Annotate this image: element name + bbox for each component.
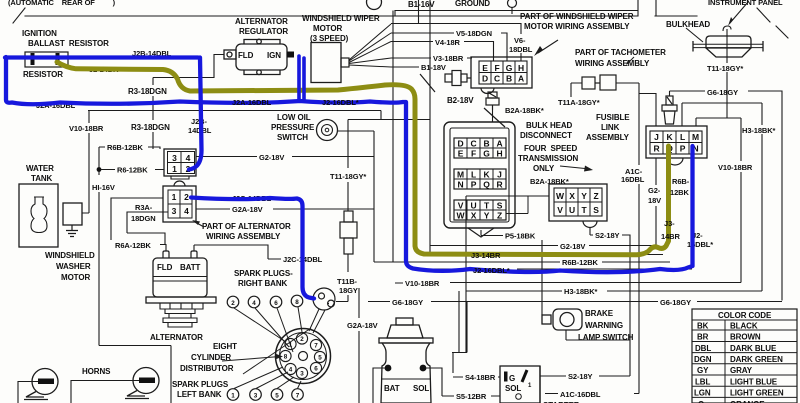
svg-text:H3-18BK*: H3-18BK*: [564, 287, 598, 296]
spark plug circle 4: [248, 296, 260, 308]
letters JKLM RQPN: [653, 132, 699, 154]
wire oil switch east: [338, 131, 375, 262]
wire V3-18BR: [391, 57, 472, 59]
wire B1-18V: [391, 66, 419, 68]
svg-text:V10-18BR: V10-18BR: [718, 163, 753, 172]
svg-text:12BK: 12BK: [670, 188, 689, 197]
bulkhead grid MLKJ/NPQR: [454, 169, 506, 189]
ballast resistor body: [25, 52, 68, 67]
resistor pin left: [31, 53, 35, 65]
wire V10 vertical to washer motor: [82, 111, 89, 214]
wire G2A-18V left: [196, 208, 374, 210]
svg-text:2: 2: [300, 336, 304, 343]
wire V6-18DBL: [391, 24, 521, 62]
windshield washer motor: [63, 203, 82, 225]
svg-text:R6B-: R6B-: [672, 177, 690, 186]
svg-text:J2-16DBL*: J2-16DBL*: [322, 98, 359, 107]
svg-text:PART OF TACHOMETER: PART OF TACHOMETER: [575, 48, 666, 57]
svg-text:(3 SPEED): (3 SPEED): [310, 34, 349, 43]
svg-text:G: G: [509, 374, 515, 383]
svg-text:GY: GY: [697, 366, 709, 375]
svg-text:P5-18BK: P5-18BK: [505, 232, 536, 241]
connector tachometer plug pair: [582, 75, 616, 90]
spark plug circle 2: [227, 296, 239, 308]
svg-text:J2-16DBL*: J2-16DBL*: [473, 266, 510, 275]
wire HI-16V vertical: [99, 147, 171, 403]
svg-text:3: 3: [172, 206, 177, 216]
wire R6B-12BK run: [374, 261, 670, 263]
svg-text:BR: BR: [697, 333, 709, 342]
svg-text:Q: Q: [483, 180, 490, 190]
svg-text:3: 3: [172, 153, 177, 163]
svg-text:1: 1: [172, 164, 177, 174]
svg-text:6: 6: [274, 300, 278, 307]
svg-text:18DGN: 18DGN: [131, 214, 156, 223]
svg-text:L: L: [471, 170, 476, 180]
svg-text:S: S: [497, 201, 503, 211]
svg-text:LOW OIL: LOW OIL: [277, 113, 311, 122]
relay terminal BAT: [385, 365, 392, 372]
distributor body: [276, 329, 331, 384]
svg-text:PRESSURE: PRESSURE: [271, 123, 315, 132]
wire brake to S2: [566, 330, 630, 340]
blue trace regulator IGN drop: [299, 56, 304, 101]
svg-text:BK: BK: [697, 322, 709, 331]
svg-text:DARK BLUE: DARK BLUE: [730, 344, 777, 353]
svg-text:M: M: [457, 170, 464, 180]
svg-text:V: V: [557, 205, 563, 215]
svg-text:A: A: [496, 139, 502, 149]
svg-text:7: 7: [296, 393, 300, 400]
wire R3A pin1 to R6A: [111, 198, 166, 251]
windshield wiper motor body: [311, 43, 341, 83]
wire G2-18V left: [196, 156, 374, 158]
bulkhead grommet: [693, 26, 763, 63]
svg-text:G: G: [483, 149, 490, 159]
svg-text:V3-18BR: V3-18BR: [433, 54, 464, 63]
wire regulator FLD lead: [153, 55, 224, 78]
wire T11A vertical: [571, 83, 582, 97]
svg-text:HORNS: HORNS: [82, 367, 111, 376]
svg-text:2: 2: [231, 300, 235, 307]
svg-text:R3A-: R3A-: [135, 203, 153, 212]
svg-text:G2-18V: G2-18V: [259, 153, 284, 162]
svg-text:Z: Z: [593, 191, 598, 201]
svg-text:3: 3: [300, 371, 304, 378]
svg-text:WIRING ASSEMBLY: WIRING ASSEMBLY: [575, 59, 650, 68]
svg-text:LBL: LBL: [695, 377, 710, 386]
svg-text:LAMP SWITCH: LAMP SWITCH: [578, 333, 634, 342]
wire BAT lead: [373, 368, 385, 403]
svg-text:DGN: DGN: [694, 355, 712, 364]
wire R pin G2: [655, 158, 657, 246]
svg-text:7: 7: [314, 343, 318, 350]
horn left: [24, 369, 58, 400]
svg-text:8: 8: [284, 354, 288, 361]
wire H3 upper run: [682, 103, 762, 126]
svg-text:DARK GREEN: DARK GREEN: [730, 355, 783, 364]
top-right dashed panel boundary: [757, 8, 788, 38]
svg-text:F: F: [471, 149, 476, 159]
svg-text:SPARK PLUGS-: SPARK PLUGS-: [234, 269, 293, 278]
svg-text:S: S: [593, 205, 599, 215]
wire A1C lower link: [545, 393, 639, 395]
wire from Z row: [506, 196, 528, 214]
svg-text:RESISTOR: RESISTOR: [23, 70, 63, 79]
svg-text:BAT: BAT: [384, 384, 400, 393]
svg-text:MOTOR: MOTOR: [61, 273, 90, 282]
wire J pin run: [639, 94, 656, 127]
svg-text:5: 5: [318, 355, 322, 362]
svg-text:R: R: [496, 180, 502, 190]
svg-text:BATT: BATT: [180, 263, 201, 272]
svg-text:GROUND: GROUND: [455, 0, 490, 8]
svg-text:W: W: [556, 191, 565, 201]
svg-text:R3-18DGN: R3-18DGN: [131, 123, 170, 132]
spark plug circle 1: [227, 389, 239, 401]
resistor pin right: [56, 53, 60, 65]
svg-text:BULKHEAD: BULKHEAD: [666, 20, 710, 29]
spark plug circle 7: [292, 389, 304, 401]
svg-text:S5-12BR: S5-12BR: [456, 392, 487, 401]
wire SOL lead to S5: [426, 368, 500, 396]
wire V10-18BR run: [395, 282, 741, 285]
wire V4-18R: [391, 42, 494, 62]
brake warning lamp switch: [542, 309, 582, 330]
svg-text:1: 1: [172, 192, 177, 202]
pointer bulkhead: [686, 28, 703, 42]
wire A1C vertical: [638, 83, 640, 394]
relay terminal SOL: [420, 365, 427, 372]
svg-text:INSTRUMENT PANEL: INSTRUMENT PANEL: [708, 0, 783, 7]
svg-text:A: A: [518, 74, 524, 84]
svg-text:BLACK: BLACK: [730, 322, 758, 331]
svg-text:V5-18DGN: V5-18DGN: [456, 29, 492, 38]
spark plug circle 8: [291, 295, 303, 307]
wire V10 vertical right: [740, 118, 742, 283]
svg-text:C: C: [470, 139, 476, 149]
svg-text:R6B-12BK: R6B-12BK: [107, 143, 144, 152]
svg-text:TRANSMISSION: TRANSMISSION: [518, 154, 578, 163]
svg-text:G6-18GY: G6-18GY: [660, 298, 691, 307]
wire tach to A1C vertical: [616, 82, 639, 84]
letters EFGH DCBA: [482, 63, 524, 84]
svg-text:S2-18Y: S2-18Y: [568, 372, 593, 381]
svg-text:LIGHT BLUE: LIGHT BLUE: [730, 377, 778, 386]
alternator pins: [163, 251, 197, 258]
fusible link component: [662, 96, 677, 124]
svg-text:T11-18GY*: T11-18GY*: [330, 172, 366, 181]
wire T11B to coil: [336, 254, 348, 302]
clipped top symbol circle: [367, 0, 382, 10]
svg-text:ALTERNATOR: ALTERNATOR: [235, 17, 288, 26]
svg-text:W: W: [457, 211, 466, 221]
color code table: [692, 309, 797, 403]
svg-text:U: U: [569, 205, 575, 215]
connector B2 plug: [486, 92, 499, 110]
svg-text:4: 4: [184, 206, 189, 216]
svg-text:LINK: LINK: [601, 123, 620, 132]
wire wiper harness fan: [349, 24, 391, 67]
svg-text:P: P: [680, 144, 686, 154]
svg-text:M: M: [692, 132, 699, 142]
svg-text:4: 4: [186, 153, 191, 163]
connector B1 inline plug: [445, 71, 471, 86]
instrument panel stub wires: [395, 0, 656, 16]
svg-text:SPARK PLUGS: SPARK PLUGS: [172, 380, 229, 389]
svg-text:WATER: WATER: [26, 164, 54, 173]
svg-text:IGNITION: IGNITION: [22, 29, 57, 38]
wire M pin run: [696, 118, 741, 126]
svg-text:B1-16V: B1-16V: [408, 0, 435, 9]
arrow four speed: [560, 166, 590, 169]
svg-text:G2A-18V: G2A-18V: [347, 321, 378, 330]
svg-text:A1C-16DBL: A1C-16DBL: [560, 390, 601, 399]
svg-text:N: N: [457, 180, 463, 190]
spark plug circle 6: [270, 296, 282, 308]
top border line: [25, 11, 697, 17]
wire G6-18GY bottom run: [368, 301, 782, 303]
svg-text:WASHER: WASHER: [56, 262, 91, 271]
svg-text:BROWN: BROWN: [730, 333, 761, 342]
wire fusible link feed: [669, 91, 671, 96]
svg-text:RIGHT BANK: RIGHT BANK: [238, 279, 288, 288]
wire T11B vertical: [347, 120, 349, 212]
svg-text:8: 8: [295, 299, 299, 306]
top-left diagonal tick: [13, 8, 25, 23]
connector wiper EFGH/DCBA: [471, 57, 532, 94]
starter relay body: [379, 318, 433, 403]
svg-text:5: 5: [275, 393, 279, 400]
svg-text:PART OF ALTERNATOR: PART OF ALTERNATOR: [202, 222, 291, 231]
svg-text:DISCONNECT: DISCONNECT: [520, 131, 572, 140]
wire S2 from four-speed connector: [590, 227, 630, 376]
svg-text:B1-18V: B1-18V: [421, 63, 446, 72]
svg-text:4: 4: [289, 367, 293, 374]
svg-text:X: X: [569, 191, 575, 201]
wires coil to distributor: [309, 309, 325, 333]
svg-text:FUSIBLE: FUSIBLE: [596, 113, 630, 122]
svg-text:R6A-12BK: R6A-12BK: [115, 241, 152, 250]
svg-text:T11B-: T11B-: [337, 277, 358, 286]
arrow to R3A connector: [195, 222, 204, 227]
svg-text:G6-18GY: G6-18GY: [707, 88, 738, 97]
svg-text:T11A-18GY*: T11A-18GY*: [558, 98, 600, 107]
wires left bank to distributor: [234, 367, 301, 389]
wire P5 to brake switch: [481, 230, 542, 315]
svg-text:SWITCH: SWITCH: [277, 133, 308, 142]
svg-text:LEFT BANK: LEFT BANK: [177, 390, 222, 399]
svg-text:3: 3: [254, 393, 258, 400]
svg-text:V6-: V6-: [514, 36, 526, 45]
connector R3A block 1-2/3-4: [163, 181, 196, 222]
switch terminal circle: [516, 394, 522, 400]
wire B2 to bulkhead: [492, 110, 494, 122]
svg-text:MOTOR: MOTOR: [313, 24, 342, 33]
alternator regulator body: [224, 39, 287, 74]
svg-text:R3-18DGN: R3-18DGN: [128, 87, 167, 96]
svg-text:J: J: [497, 170, 502, 180]
wire horn right: [71, 381, 139, 403]
svg-text:2: 2: [184, 192, 189, 202]
svg-text:14BR: 14BR: [661, 232, 680, 241]
svg-text:B: B: [506, 74, 512, 84]
connector T11B inline: [340, 211, 357, 254]
svg-text:DISTRIBUTOR: DISTRIBUTOR: [180, 364, 234, 373]
distributor tower numbers: [284, 336, 323, 378]
wire stub vertical x418: [418, 0, 420, 24]
wire T11 down from bulkhead: [726, 72, 728, 118]
junction dot R6: [97, 167, 102, 172]
svg-text:H: H: [496, 149, 502, 159]
svg-text:LGN: LGN: [694, 389, 711, 398]
wire R3A pin3 loop: [127, 212, 168, 245]
svg-text:B: B: [483, 139, 489, 149]
svg-text:G6-18GY: G6-18GY: [392, 298, 423, 307]
svg-text:D: D: [482, 74, 488, 84]
svg-text:G2-: G2-: [648, 186, 661, 195]
wire long vertical x393: [392, 11, 394, 263]
svg-text:R: R: [653, 144, 659, 154]
bulkhead disconnect connector: [444, 122, 515, 237]
wire left bank long diagonal to coil: [243, 328, 311, 374]
svg-text:G2A-18V: G2A-18V: [232, 205, 263, 214]
svg-text:V10-18BR: V10-18BR: [405, 279, 440, 288]
svg-text:EIGHT: EIGHT: [213, 342, 237, 351]
svg-text:K: K: [666, 132, 673, 142]
wire H3 vertical right: [761, 134, 763, 291]
svg-text:GRAY: GRAY: [730, 366, 753, 375]
arrowhead bulkhead pointer: [728, 17, 733, 26]
svg-text:R6B-12BK: R6B-12BK: [562, 258, 599, 267]
svg-text:P: P: [471, 180, 477, 190]
svg-text:WARNING: WARNING: [585, 321, 623, 330]
svg-text:18DBL: 18DBL: [509, 45, 533, 54]
svg-text:1: 1: [231, 393, 235, 400]
svg-text:T11-18GY*: T11-18GY*: [707, 64, 743, 73]
wire WXYZ left feed: [466, 196, 549, 353]
svg-text:BULK HEAD: BULK HEAD: [526, 121, 573, 130]
wire S2-18Y lower: [540, 375, 630, 377]
wire J2A lower chassis run: [88, 111, 430, 120]
svg-text:BRAKE: BRAKE: [585, 309, 614, 318]
wires right bank to distributor: [234, 307, 302, 352]
arrow to wiper connector: [538, 40, 558, 53]
svg-text:4: 4: [252, 300, 256, 307]
svg-text:18GY: 18GY: [339, 286, 358, 295]
svg-text:SOL: SOL: [505, 384, 521, 393]
svg-text:B2-18V: B2-18V: [447, 96, 474, 105]
connector R6 block 3-4/1-2: [164, 149, 196, 179]
svg-text:R6-12BK: R6-12BK: [117, 166, 148, 175]
svg-text:COLOR CODE: COLOR CODE: [718, 311, 772, 320]
water tank bottle: [31, 197, 47, 233]
svg-text:V4-18R: V4-18R: [435, 38, 461, 47]
svg-text:Z: Z: [497, 211, 502, 221]
svg-text:C: C: [494, 74, 500, 84]
svg-text:WINDSHIELD WIPER: WINDSHIELD WIPER: [302, 14, 380, 23]
svg-text:HI-16V: HI-16V: [92, 183, 115, 192]
wire horn left: [18, 382, 38, 403]
alternator body: [146, 258, 216, 327]
svg-text:ASSEMBLY: ASSEMBLY: [586, 133, 630, 142]
svg-text:PART OF WINDSHIELD WIPER: PART OF WINDSHIELD WIPER: [520, 12, 634, 21]
ignition switch box: [500, 366, 540, 403]
wire S4-18BR: [452, 291, 500, 377]
svg-text:S2-18Y: S2-18Y: [595, 231, 620, 240]
wire long vertical x430: [429, 0, 431, 255]
svg-text:SOL: SOL: [413, 384, 429, 393]
svg-text:ONLY: ONLY: [533, 164, 555, 173]
svg-text:REGULATOR: REGULATOR: [239, 27, 288, 36]
arrow from instrument panel to bulkhead: [730, 2, 748, 23]
olive highlighted trace (R6B circuit): [57, 62, 669, 255]
svg-text:H3-18BK*: H3-18BK*: [742, 126, 776, 135]
svg-text:TANK: TANK: [31, 174, 53, 183]
wire G2A-18V right vertical: [358, 288, 360, 403]
dashed assembly boundary (left of bulkhead): [420, 74, 505, 127]
wire G6-18GY top: [670, 91, 783, 301]
ignition coil: [313, 288, 335, 310]
svg-text:B2A-18BK*: B2A-18BK*: [505, 106, 544, 115]
svg-text:S4-18BR: S4-18BR: [465, 373, 496, 382]
svg-text:F: F: [494, 63, 499, 73]
svg-text:ALTERNATOR: ALTERNATOR: [150, 333, 203, 342]
svg-text:V: V: [458, 201, 464, 211]
water tank: [19, 184, 58, 247]
svg-text:D: D: [457, 139, 463, 149]
low oil pressure switch: [317, 120, 338, 141]
ground symbol washer: [66, 225, 78, 237]
bulkhead grid DCBA/EFGH: [454, 138, 506, 158]
svg-text:16DBL: 16DBL: [621, 175, 645, 184]
svg-text:J3-14BR: J3-14BR: [471, 251, 501, 260]
wire R6B-12BK left: [99, 147, 160, 149]
pointer distributor arrow: [222, 357, 280, 362]
svg-text:U: U: [470, 201, 476, 211]
svg-text:Y: Y: [484, 211, 490, 221]
svg-text:K: K: [483, 170, 490, 180]
svg-text:FLD: FLD: [157, 263, 173, 272]
blue trace J2B branch to connector pin 2: [189, 58, 202, 170]
svg-text:J3-: J3-: [664, 219, 675, 228]
svg-text:E: E: [482, 63, 488, 73]
svg-text:BALLAST RESISTOR: BALLAST RESISTOR: [28, 39, 109, 48]
svg-text:LIGHT GREEN: LIGHT GREEN: [730, 389, 784, 398]
svg-text:E: E: [458, 149, 464, 159]
wire J3-14BR run: [430, 254, 663, 256]
wiper motor terminal tab: [341, 58, 349, 67]
connector JKLM/RQPN: [646, 126, 707, 165]
svg-text:DBL: DBL: [695, 344, 711, 353]
svg-text:J: J: [654, 132, 659, 142]
wire G2-18V middle: [430, 245, 656, 247]
ground symbol circle (top): [508, 0, 517, 8]
regulator IGN terminal: [287, 52, 294, 58]
svg-text:18V: 18V: [648, 196, 661, 205]
svg-text:FLD: FLD: [238, 51, 254, 60]
svg-text:L: L: [680, 132, 685, 142]
svg-text:IGN: IGN: [267, 51, 281, 60]
connector WXYZ/VUTS (four speed): [549, 184, 607, 228]
wire R3-18DGN vertical: [152, 78, 154, 150]
svg-text:G: G: [506, 63, 513, 73]
bulkhead grid VUTS/WXYZ: [454, 200, 506, 220]
spark plug circle 3: [250, 389, 262, 401]
horn right: [125, 368, 159, 399]
svg-text:J2A-16DBL: J2A-16DBL: [232, 98, 272, 107]
wire J2-16DBL run (under blue): [413, 268, 692, 270]
